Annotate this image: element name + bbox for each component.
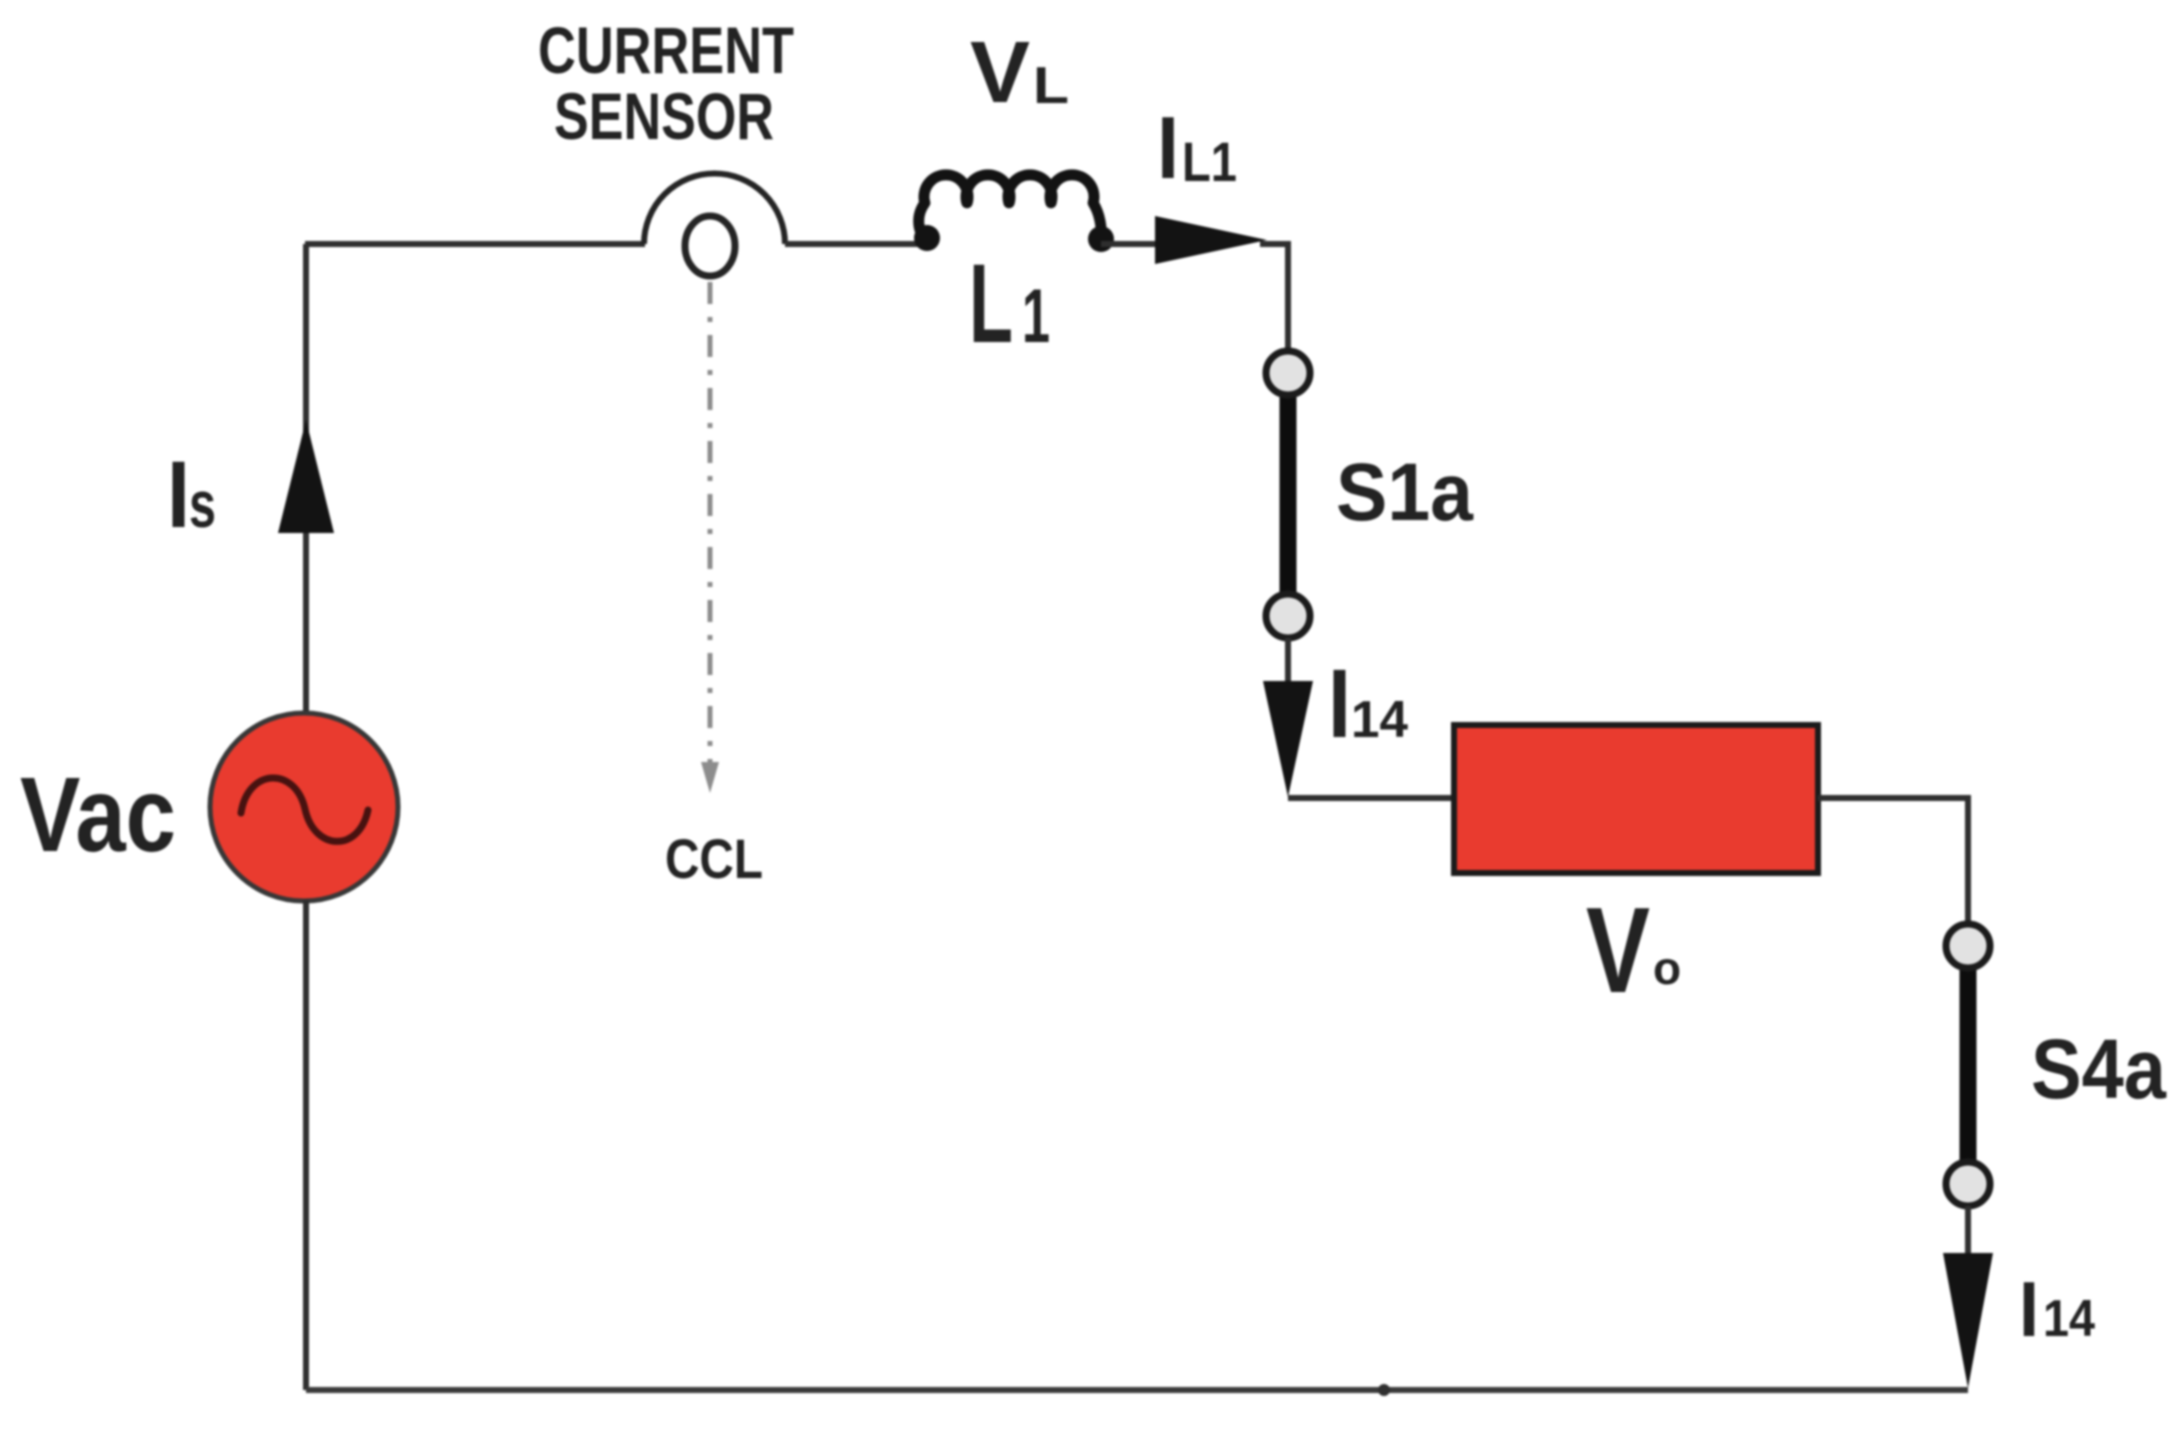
current sensor window circle: [685, 216, 735, 276]
wire top horizontal (source to sensor): [305, 241, 645, 247]
svg-text:14: 14: [1351, 691, 1408, 749]
svg-text:S4a: S4a: [2031, 1022, 2167, 1116]
svg-text:I: I: [2019, 1265, 2039, 1353]
sine wave inside Vac: [241, 778, 368, 841]
current sensor arc: [644, 174, 785, 245]
switch S1a top contact: [1266, 351, 1310, 395]
wire S1a to arrow: [1285, 638, 1291, 700]
svg-text:o: o: [1653, 942, 1681, 994]
svg-text:L: L: [969, 241, 1013, 366]
wire bottom horizontal: [306, 1387, 1968, 1393]
junction on bottom wire: [1378, 1384, 1390, 1396]
svg-text:CCL: CCL: [665, 827, 763, 890]
switch S1a bar: [1280, 390, 1297, 600]
wire left vertical lower (source to bottom corner): [303, 900, 309, 1390]
inductor L1 left terminal dot: [914, 225, 940, 251]
svg-text:I: I: [1328, 649, 1351, 758]
arrow IL1: [1155, 216, 1267, 264]
switch S4a top contact: [1946, 924, 1990, 968]
svg-text:1: 1: [1022, 274, 1050, 359]
svg-text:s: s: [189, 467, 216, 541]
wire arrow to S1a corner: [1260, 244, 1288, 355]
load Vo rectangle: [1454, 725, 1818, 873]
svg-text:S1a: S1a: [1336, 447, 1474, 538]
wire left vertical upper (source to top corner): [303, 244, 309, 714]
svg-text:V: V: [1586, 882, 1650, 1018]
svg-text:14: 14: [2043, 1290, 2095, 1348]
svg-text:V: V: [970, 24, 1030, 121]
svg-text:I: I: [167, 442, 190, 548]
switch S4a bar: [1960, 960, 1977, 1172]
svg-text:L: L: [1033, 57, 1069, 115]
svg-text:L1: L1: [1182, 130, 1237, 193]
wire load to S4a corner: [1818, 798, 1968, 927]
wire inductor to arrow: [1101, 241, 1165, 247]
svg-text:CURRENT: CURRENT: [538, 13, 794, 87]
switch S4a bottom contact: [1946, 1162, 1990, 1206]
switch S1a bottom contact: [1266, 594, 1310, 638]
sensor lead arrowhead: [701, 762, 719, 793]
arrow I14 upper: [1263, 681, 1313, 797]
sensor dash-dot lead to CCL: [708, 282, 713, 768]
inductor L1 right terminal dot: [1088, 226, 1114, 252]
arrow I14 lower: [1943, 1253, 1993, 1388]
inductor L1 coil: [919, 175, 1102, 239]
arrow Is: [278, 420, 334, 533]
svg-text:I: I: [1157, 98, 1179, 197]
svg-text:SENSOR: SENSOR: [554, 79, 774, 153]
ac source Vac: [210, 713, 398, 901]
wire arrow to load: [1288, 795, 1454, 801]
wire sensor to inductor: [785, 241, 927, 247]
svg-text:Vac: Vac: [20, 756, 176, 874]
wire S4a to arrow: [1965, 1206, 1971, 1265]
